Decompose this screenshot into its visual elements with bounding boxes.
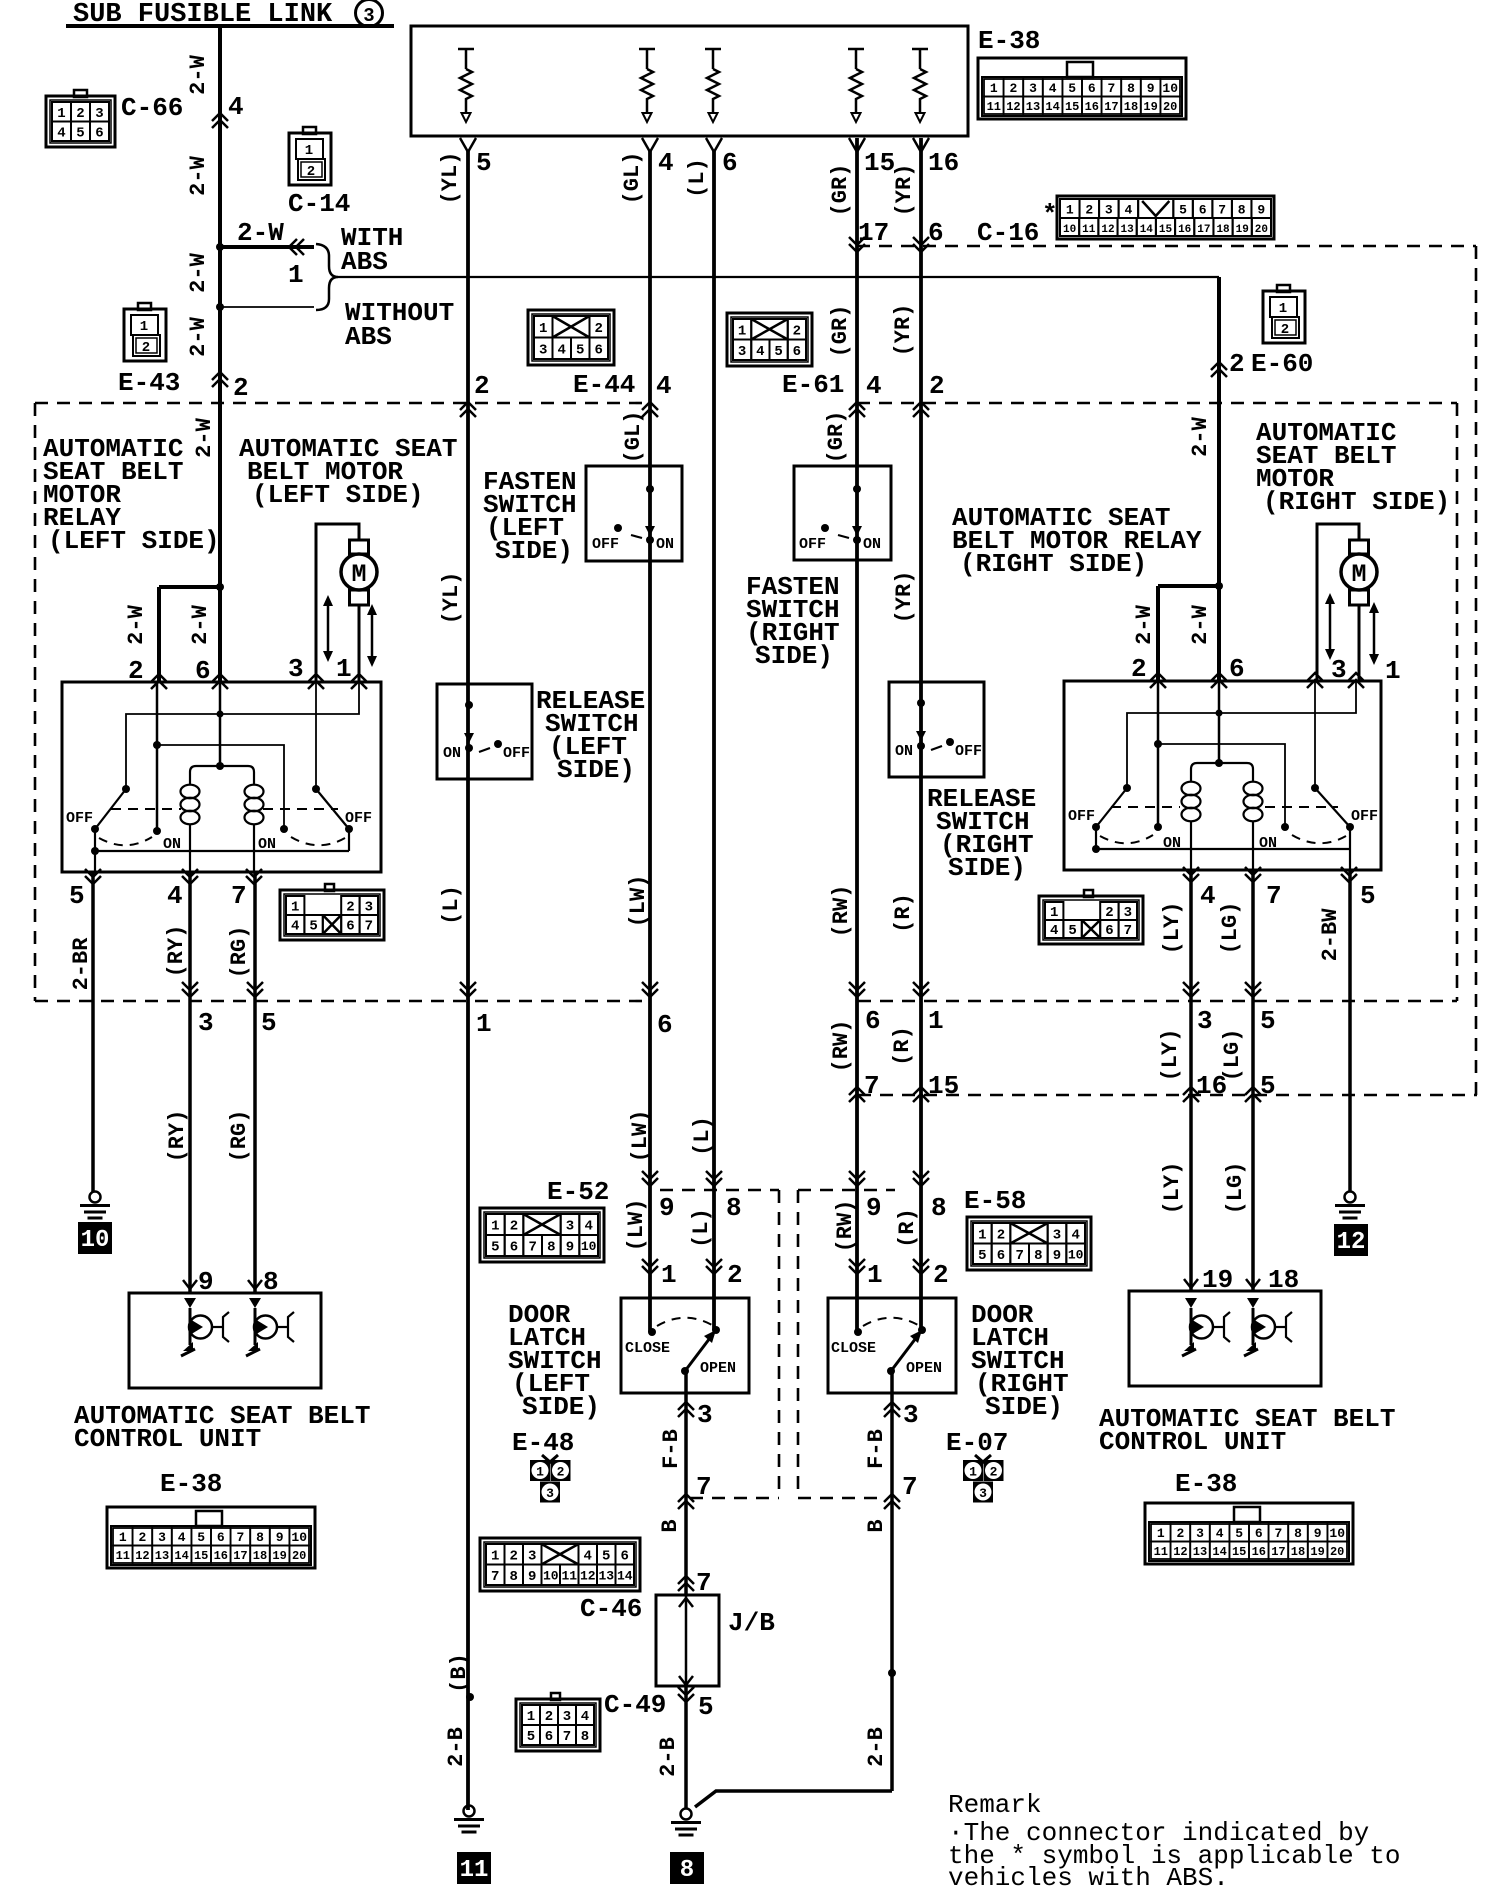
relay1 common down wire [94,829,96,872]
relay2 coil A [1182,782,1201,796]
relay1 left switch top contact [122,785,130,793]
svg-text:8: 8 [726,1193,742,1223]
svg-text:C-49: C-49 [604,1690,666,1720]
relay2 coil A lead to pin4 [1190,821,1192,870]
svg-text:(GL): (GL) [621,411,646,464]
relay2 left switch arm [1096,788,1127,827]
marker relay entry 3 [1307,673,1323,688]
svg-text:6: 6 [1199,203,1207,218]
svg-text:E-61: E-61 [782,370,844,400]
release1 contact arrow [464,733,474,743]
svg-text:1: 1 [1385,656,1401,686]
svg-text:SIDE): SIDE) [948,853,1026,883]
svg-text:10: 10 [1162,81,1178,96]
svg-text:8: 8 [1127,81,1135,96]
transistor Q3 [1185,1298,1197,1308]
svg-text:18: 18 [1268,1265,1299,1295]
svg-text:9: 9 [198,1267,214,1297]
relay1 left ON contact [153,827,161,835]
svg-text:3: 3 [546,1486,554,1501]
svg-text:(GR): (GR) [828,305,853,358]
svg-text:OPEN: OPEN [906,1360,942,1377]
svg-text:1: 1 [1157,1526,1165,1541]
svg-text:ABS: ABS [341,247,388,277]
svg-text:5: 5 [69,881,85,911]
svg-text:(RIGHT SIDE): (RIGHT SIDE) [960,549,1147,579]
svg-text:OFF: OFF [1351,808,1378,825]
marker F-B at door boundary right [884,1494,900,1509]
svg-text:OFF: OFF [503,745,530,762]
svg-text:12: 12 [1173,1545,1187,1559]
dashed door-latch-left boundary bottom [690,1497,779,1500]
control unit entry arrow 19 [1184,1279,1198,1288]
svg-text:3: 3 [566,1219,574,1235]
wire 2-W relay branch right [1158,584,1219,588]
svg-text:E-58: E-58 [964,1186,1026,1216]
svg-text:4: 4 [1200,881,1216,911]
relay2 pin2 tap junction [1154,740,1162,748]
wire 2-W right vertical [1217,277,1221,681]
marker relay exit 5 [85,869,101,884]
svg-text:ON: ON [443,745,461,762]
svg-text:2-W: 2-W [1132,604,1157,644]
svg-text:OFF: OFF [592,536,619,553]
relay2 right ON contact [1281,823,1289,831]
dashed body boundary right [1456,403,1459,1001]
resistor R4 [848,49,864,113]
svg-text:3: 3 [563,1709,571,1725]
svg-text:14: 14 [174,1549,188,1563]
svg-text:E-48: E-48 [512,1428,574,1458]
svg-text:E-44: E-44 [573,370,635,400]
motor M2 (right side) [1350,540,1369,554]
svg-text:1: 1 [990,81,998,96]
svg-text:(YR): (YR) [891,304,916,357]
svg-text:10: 10 [81,1227,110,1254]
svg-text:4: 4 [656,371,672,401]
svg-text:2: 2 [595,321,603,337]
dashed door-latch-right boundary left [797,1190,800,1498]
svg-text:7: 7 [491,1569,499,1585]
circled 3 symbol [356,0,383,27]
relay K1 box (left) [62,682,381,872]
marker door latch entry pin 1 [849,1259,865,1274]
marker R at C-16 boundary [913,1087,929,1102]
svg-text:19: 19 [272,1549,286,1563]
svg-text:14: 14 [617,1568,633,1583]
relay2 wire pin6 down [1218,681,1221,763]
svg-text:13: 13 [598,1568,614,1583]
svg-text:6: 6 [1255,1526,1263,1541]
relay2 wire pin1 to left contact [1127,681,1356,788]
svg-text:3: 3 [1124,905,1132,921]
transistor Q4 [1247,1298,1259,1308]
svg-text:J/B: J/B [728,1608,775,1638]
svg-text:7: 7 [696,1472,712,1502]
svg-text:15: 15 [1159,224,1173,236]
marker relay entry 3 [308,674,324,689]
relay1 coil B lead to pin7 [253,824,255,872]
svg-text:16: 16 [214,1549,228,1563]
relay1 common bus [95,850,349,852]
svg-text:2: 2 [1009,81,1017,96]
svg-text:18: 18 [253,1549,267,1563]
svg-text:3: 3 [539,342,547,358]
release2 wire junction [917,699,925,707]
marker door latch entry pin 1 [642,1259,658,1274]
svg-text:3: 3 [528,1548,536,1564]
dashed body boundary top-left [35,402,650,405]
dashed body boundary top-right [857,402,1457,405]
svg-text:4: 4 [1216,1526,1224,1541]
svg-text:1: 1 [305,143,313,159]
node 2-W branch junction right [1215,582,1223,590]
svg-text:(L): (L) [439,885,464,925]
wire motor1 bottom lead [358,605,361,682]
relay K2 box (right) [1064,681,1381,870]
splice on B wire [466,1693,474,1701]
dashed body boundary bottom-left [35,1000,651,1003]
svg-text:4: 4 [658,148,674,178]
svg-text:4: 4 [581,1709,589,1725]
node junction on 2-W (with-ABS tap) [216,243,224,251]
fasten2 contact arrow [852,526,862,536]
doorlatch2 pivot [887,1367,895,1375]
svg-text:7: 7 [1124,923,1132,939]
fasten1 contact arrow [645,526,655,536]
svg-text:8: 8 [680,1857,694,1884]
relay2 tap to right ON contact [1158,744,1285,827]
release2 contact arrow [916,731,926,741]
wire split under resistor box pin 6 [706,138,722,152]
relay2 wire pin3 down [1314,681,1316,788]
svg-text:(YR): (YR) [892,571,917,624]
marker relay exit 7 [1245,867,1261,882]
svg-text:9: 9 [1147,81,1155,96]
svg-text:6: 6 [997,1248,1005,1264]
svg-text:(LEFT SIDE): (LEFT SIDE) [48,526,220,556]
svg-text:1: 1 [527,1709,535,1725]
svg-text:7: 7 [864,1071,880,1101]
doorlatch2 throw arc [863,1318,918,1326]
svg-text:11: 11 [1154,1545,1168,1559]
ground G4 [681,1809,692,1820]
connector E-43 [124,309,166,361]
wire split under resistor box pin 16 [913,138,929,152]
svg-text:7: 7 [528,1240,536,1256]
svg-text:6: 6 [793,344,801,360]
svg-text:OFF: OFF [66,810,93,827]
svg-text:10: 10 [1329,1526,1345,1541]
marker at door-latch boundary pin 9 [642,1171,658,1186]
svg-text:5: 5 [978,1248,986,1264]
svg-text:ON: ON [258,836,276,853]
svg-text:9: 9 [276,1530,284,1545]
svg-text:E-38: E-38 [1175,1469,1237,1499]
fasten switch box (left) [586,466,682,561]
svg-text:1: 1 [969,1465,977,1480]
marker relay entry 2 [151,674,167,689]
svg-text:6: 6 [510,1240,518,1256]
marker LG at body boundary [1245,982,1261,997]
relay2 left ON contact [1154,823,1162,831]
svg-text:OFF: OFF [799,536,826,553]
wire (GL)/(LW) vertical [648,150,652,1332]
svg-text:3: 3 [738,344,746,360]
svg-text:5: 5 [476,148,492,178]
doorlatch1 CLOSE contact [648,1328,656,1336]
svg-text:5: 5 [1068,923,1076,939]
svg-text:3: 3 [697,1400,713,1430]
svg-text:4: 4 [1124,203,1132,218]
svg-text:C-14: C-14 [288,189,350,219]
svg-text:5: 5 [197,1530,205,1545]
svg-text:(L): (L) [689,1208,714,1248]
svg-text:7: 7 [902,1472,918,1502]
svg-text:19: 19 [1310,1545,1324,1559]
fasten1 pivot [614,524,622,532]
svg-text:6: 6 [722,148,738,178]
svg-text:2-B: 2-B [444,1727,469,1767]
svg-text:2: 2 [1229,349,1245,379]
svg-text:4: 4 [584,1219,592,1235]
relay2 right common down [1349,827,1351,870]
door latch switch box (right) [828,1298,956,1393]
wire (YL) vertical [466,150,470,1810]
marker LG at C-16 boundary [1245,1087,1261,1102]
svg-text:3: 3 [1053,1227,1061,1243]
svg-text:2-W: 2-W [186,316,211,356]
svg-text:(LW): (LW) [626,875,651,928]
relay1 right switch top contact [312,785,320,793]
svg-text:6: 6 [621,1548,629,1564]
wire F-B right [890,1371,894,1791]
svg-text:2: 2 [346,900,354,916]
relay2 common junction [1092,845,1100,853]
svg-text:14: 14 [1212,1545,1226,1559]
resistor R2 [639,49,655,113]
svg-text:5: 5 [1260,1006,1276,1036]
svg-text:E-38: E-38 [160,1469,222,1499]
connector pass marker on 2-W [212,113,228,128]
wire (RG) vertical [253,872,257,1293]
svg-text:(RG): (RG) [227,926,252,979]
relay1 left throw arc [99,837,152,845]
svg-text:1: 1 [1050,905,1058,921]
motor direction arrow [1329,601,1332,652]
svg-text:2: 2 [929,371,945,401]
dashed door-latch-right boundary top [798,1189,895,1192]
dashed C-16 boundary bottom [858,1094,1477,1097]
connector C-46 [480,1538,640,1591]
svg-text:2-B: 2-B [864,1727,889,1767]
node 2-W branch junction left [216,583,224,591]
relay1 coil A [181,785,200,799]
svg-text:3: 3 [1105,203,1113,218]
svg-text:3: 3 [1029,81,1037,96]
svg-text:5: 5 [1360,881,1376,911]
control unit box (left) [129,1293,321,1388]
svg-text:15: 15 [864,148,895,178]
svg-text:10: 10 [543,1568,559,1583]
svg-text:6: 6 [195,656,211,686]
doorlatch2 CLOSE contact [854,1328,862,1336]
marker LY at C-16 boundary [1183,1087,1199,1102]
marker door latch exit 3 right [884,1402,900,1417]
wire split under resistor box pin 4 [642,138,658,152]
svg-text:(YL): (YL) [438,152,463,205]
svg-text:1: 1 [57,106,65,122]
svg-text:(RG): (RG) [227,1110,252,1163]
relay1 wire pin1 to left contact [126,682,359,789]
doorlatch1 throw arc [657,1318,712,1326]
connector C-66 [46,96,115,147]
connector E-38 (top) [978,58,1186,119]
svg-text:(R): (R) [891,893,916,933]
svg-text:(LG): (LG) [1223,1162,1248,1215]
svg-text:2: 2 [545,1709,553,1725]
svg-text:9: 9 [566,1240,574,1256]
marker RG at body boundary [247,982,263,997]
svg-text:1: 1 [1279,301,1287,317]
marker relay entry 1 [351,674,367,689]
connector E-44 [528,310,614,365]
marker relay entry 6 [1211,673,1227,688]
svg-text:8: 8 [547,1240,555,1256]
svg-text:11: 11 [987,100,1001,114]
svg-text:3: 3 [365,900,373,916]
transistor Q2 [249,1298,261,1308]
svg-text:ON: ON [863,536,881,553]
svg-text:8: 8 [510,1569,518,1585]
svg-text:2: 2 [128,656,144,686]
connector (relay right 7-pin) [1039,896,1143,944]
marker relay exit 7 [246,869,262,884]
arrow marker on with-ABS branch [289,239,304,255]
doorlatch2 OPEN contact [918,1326,926,1334]
wire motor1 top lead [316,524,359,682]
splice on right 2-B wire [888,1669,896,1677]
svg-text:8: 8 [1034,1248,1042,1264]
svg-text:1: 1 [536,1465,544,1480]
fasten2 pivot [821,524,829,532]
svg-text:E-07: E-07 [946,1428,1008,1458]
wire motor2 top lead [1317,524,1359,681]
dashed door-latch-left boundary top [660,1189,779,1192]
wire (YR)/(R) vertical [919,138,923,1330]
svg-text:7: 7 [236,1530,244,1545]
svg-text:(LW): (LW) [628,1110,653,1163]
relay2 coil yoke [1191,763,1253,782]
svg-text:SIDE): SIDE) [557,755,635,785]
svg-text:3: 3 [1196,1526,1204,1541]
svg-text:(RW): (RW) [829,1020,854,1073]
svg-text:ON: ON [1259,835,1277,852]
svg-text:OFF: OFF [1068,808,1095,825]
svg-text:13: 13 [1121,224,1135,236]
wire split under resistor box pin 15 [849,138,865,152]
connector E-52 [480,1208,604,1262]
connector E-60 [1263,291,1305,343]
svg-text:2-W: 2-W [124,604,149,644]
marker relay exit 5 [1341,867,1357,882]
wire relay2 exit 7 (LG) [1251,870,1255,1291]
svg-text:3: 3 [979,1486,987,1501]
svg-text:7: 7 [1107,81,1115,96]
marker GL at E-44 [642,402,658,417]
svg-text:16: 16 [1252,1545,1266,1559]
connector E-58 [967,1217,1091,1270]
svg-text:4: 4 [178,1530,186,1545]
svg-text:4: 4 [866,371,882,401]
svg-text:(GR): (GR) [824,411,849,464]
connector C-16 [1057,196,1274,239]
resistor R5 [912,49,928,113]
svg-text:10: 10 [1063,224,1076,236]
svg-text:(L): (L) [690,1116,715,1156]
marker J/B entry 7 [678,1576,694,1591]
svg-text:7: 7 [1015,1248,1023,1264]
svg-text:2-W: 2-W [186,252,211,292]
svg-text:CONTROL UNIT: CONTROL UNIT [74,1424,261,1454]
svg-text:5: 5 [698,1692,714,1722]
svg-text:9: 9 [1053,1248,1061,1264]
svg-text:7: 7 [231,881,247,911]
svg-text:15: 15 [1232,1545,1246,1559]
svg-text:SIDE): SIDE) [985,1392,1063,1422]
svg-text:E-60: E-60 [1251,349,1313,379]
relay1 left switch common node [91,825,99,833]
svg-text:3: 3 [288,654,304,684]
relay2 common down wire [1095,827,1097,849]
svg-text:6: 6 [346,919,354,935]
svg-text:12: 12 [1101,224,1114,236]
wire 2-W relay branch [159,585,220,589]
svg-text:1: 1 [539,321,547,337]
door latch switch box (left) [621,1298,749,1393]
svg-text:11: 11 [116,1549,130,1563]
svg-text:15: 15 [1065,100,1079,114]
relay2 wire pin2 down [1157,681,1160,827]
fasten2 ON contact [853,536,861,544]
svg-text:5: 5 [1235,1526,1243,1541]
resistor R1 [458,49,474,113]
svg-text:14: 14 [1140,224,1154,236]
svg-text:12: 12 [135,1549,149,1563]
dashed door-latch-left boundary right [778,1190,781,1498]
svg-text:1: 1 [1066,203,1074,218]
control unit entry arrow 9 [183,1280,197,1289]
svg-text:4: 4 [558,342,566,358]
svg-text:4: 4 [1050,923,1058,939]
svg-text:1: 1 [291,900,299,916]
svg-text:14: 14 [1045,100,1059,114]
relay1 right switch common node [345,825,353,833]
doorlatch1 arm [685,1334,713,1371]
svg-text:2: 2 [1085,203,1093,218]
dashed C-16 boundary right [1475,246,1478,1095]
svg-text:2: 2 [933,1260,949,1290]
svg-text:6: 6 [1229,654,1245,684]
doorlatch1 OPEN contact [712,1326,720,1334]
release switch box (right) [889,682,984,777]
ground G3 [464,1806,475,1817]
svg-text:2: 2 [233,373,249,403]
svg-text:2-W: 2-W [192,417,217,457]
svg-text:19: 19 [1143,100,1157,114]
svg-text:18: 18 [1124,100,1138,114]
svg-text:5: 5 [309,919,317,935]
